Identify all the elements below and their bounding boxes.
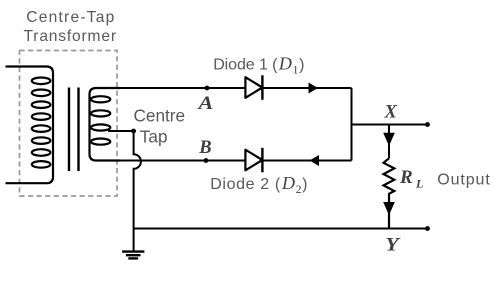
wire: top (node A line from secondary to corner)	[104, 87, 352, 89]
svg-text:Diode 2 (D2): Diode 2 (D2)	[210, 173, 307, 196]
wire: centre tap down with hop over B line	[134, 131, 141, 252]
transformer core	[68, 88, 70, 172]
transformer enclosure dashed box	[20, 51, 118, 197]
current arrow down (into RL)	[383, 133, 395, 146]
svg-text:Y: Y	[385, 235, 401, 255]
svg-text:Diode 1 (D1): Diode 1 (D1)	[213, 54, 304, 77]
primary winding loops	[32, 78, 51, 85]
wire: resistor branch vertical	[388, 125, 390, 159]
svg-text:X: X	[384, 102, 398, 122]
terminal Y dot	[425, 226, 430, 231]
svg-text:L: L	[415, 177, 423, 191]
centre tap junction dot	[131, 129, 136, 134]
svg-text:Centre-Tap: Centre-Tap	[26, 9, 114, 26]
node B dot	[204, 158, 209, 163]
ground	[122, 250, 144, 252]
secondary winding loops	[91, 96, 110, 102]
wire: bottom secondary lead (node B line to corner)	[104, 160, 352, 162]
node A dot	[205, 86, 210, 91]
diode D1	[245, 77, 262, 98]
resistor RL zigzag	[384, 158, 395, 228]
wire: X output line	[352, 124, 428, 126]
centre tap lead	[108, 130, 134, 132]
svg-text:A: A	[197, 94, 213, 114]
terminal X dot	[425, 122, 430, 127]
svg-text:R: R	[399, 167, 413, 188]
current arrow right (top wire)	[309, 83, 319, 94]
svg-text:Tap: Tap	[140, 126, 168, 146]
svg-text:B: B	[198, 138, 211, 158]
current arrow left (bottom wire)	[310, 155, 320, 166]
wire: right vertical joining diode outputs	[351, 88, 353, 161]
diode D2	[245, 150, 262, 171]
wire: bottom rail to Y	[134, 228, 428, 230]
svg-text:Output: Output	[437, 171, 490, 188]
secondary winding backbone and leads	[90, 88, 121, 161]
svg-text:Transformer: Transformer	[24, 28, 117, 45]
svg-text:Centre: Centre	[134, 106, 186, 126]
primary winding L1 backbone and leads	[6, 67, 54, 184]
current arrow down (out of RL)	[383, 202, 395, 215]
